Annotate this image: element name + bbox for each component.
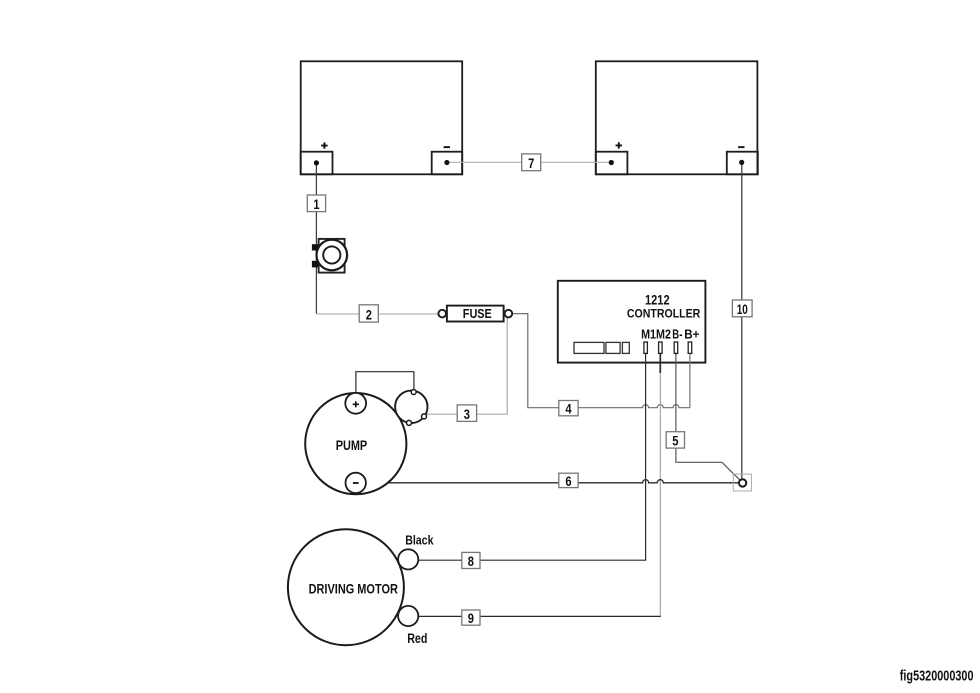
wire number box 2 [359, 305, 378, 323]
svg-text:6: 6 [565, 474, 572, 489]
svg-text:PUMP: PUMP [336, 438, 368, 454]
svg-text:Red: Red [407, 631, 427, 646]
svg-text:DRIVING MOTOR: DRIVING MOTOR [309, 582, 398, 598]
controller connector slot medium [606, 342, 620, 353]
wire M2 dark stub at controller [659, 354, 661, 374]
pump M2 body circle [305, 393, 406, 494]
controller U1 labels [574, 293, 701, 354]
svg-text:4: 4 [565, 402, 572, 417]
battery B1 minus sign [444, 146, 450, 148]
battery B2 negative dot [739, 160, 744, 165]
wire 2: key switch to fuse [316, 313, 439, 315]
svg-text:10: 10 [737, 302, 748, 317]
svg-text:B+: B+ [684, 326, 699, 341]
key switch outer ring [317, 240, 348, 271]
fuse right end cap [505, 310, 513, 318]
svg-text:9: 9 [468, 611, 474, 626]
controller terminal B- [674, 342, 678, 353]
controller terminal M1 [644, 342, 648, 353]
svg-text:3: 3 [464, 407, 471, 422]
battery B2 positive dot [609, 160, 614, 165]
battery B2 plus sign [616, 142, 622, 148]
wire 4: fuse output to controller B+ (hops over M1 M2 B-) [512, 314, 690, 408]
key switch S1 body [312, 239, 347, 273]
battery B1 body [301, 61, 463, 174]
wire 10: B2 negative down to junction [741, 163, 743, 480]
pump connector pin bottom-left [407, 420, 412, 425]
controller terminal M2 [659, 342, 663, 353]
wire 7: B1 negative to B2 positive [447, 161, 611, 163]
svg-text:Black: Black [405, 532, 434, 547]
wire number box 3 [457, 405, 476, 422]
svg-text:1: 1 [313, 197, 320, 212]
pump positive terminal circle [345, 393, 366, 414]
controller terminal B+ [688, 342, 692, 353]
battery B2 positive terminal box [596, 152, 628, 175]
driving motor M1 body circle [288, 529, 404, 645]
svg-text:5: 5 [672, 434, 679, 449]
wire 1: B1 positive down to key switch [315, 163, 317, 314]
svg-text:2: 2 [366, 307, 372, 322]
wire M2 vertical (grey) [659, 373, 661, 616]
battery B1 plus sign [321, 142, 327, 148]
junction node square [733, 474, 751, 491]
wire number box 4 [559, 401, 578, 417]
pump connector plug circle [395, 391, 427, 423]
wire 6: pump negative to junction (hops over M1 M2) [366, 480, 739, 483]
wire number box 6 [559, 473, 578, 489]
battery B2 body [596, 61, 758, 174]
pump connector pin right [422, 414, 427, 419]
junction node circle [739, 479, 746, 486]
svg-text:1212: 1212 [645, 293, 670, 309]
svg-text:fig5320000300: fig5320000300 [900, 667, 974, 684]
pump negative sign [353, 482, 359, 484]
battery B1 negative dot [444, 160, 449, 165]
svg-text:CONTROLLER: CONTROLLER [627, 308, 701, 321]
key switch lower tab [312, 261, 319, 268]
svg-text:B-: B- [672, 326, 682, 341]
battery B1 negative terminal box [432, 152, 463, 175]
wire number box 5 [666, 432, 684, 449]
wire number box 10 [732, 300, 752, 317]
svg-text:FUSE: FUSE [463, 307, 492, 321]
fuse F1 body [438, 306, 512, 322]
motor Black terminal circle [398, 549, 418, 569]
controller U1 box [558, 281, 706, 363]
controller connector slot large [574, 342, 604, 353]
wire B+ vertical [689, 354, 691, 408]
pump positive sign [353, 401, 359, 407]
battery B1 positive terminal box [301, 152, 333, 175]
wire number box 8 [462, 552, 480, 569]
svg-text:8: 8 [468, 554, 475, 569]
wire 5: controller B- down through box 5 to junction [676, 354, 741, 482]
fuse body rect [447, 306, 504, 322]
battery B1 positive dot [314, 160, 319, 165]
svg-text:7: 7 [528, 156, 534, 171]
wire number box 1 [307, 195, 325, 212]
battery B2 negative terminal box [727, 152, 758, 175]
key switch upper tab [312, 244, 319, 250]
pump positive jumper wire to connector [356, 372, 414, 394]
wire 9: M2 to motor Red terminal [418, 615, 661, 617]
motor Red terminal circle [398, 606, 418, 626]
pump negative terminal circle [346, 473, 366, 493]
battery B2 minus sign [738, 146, 744, 148]
svg-text:M1M2: M1M2 [641, 326, 671, 341]
wire number box 7 [522, 154, 541, 171]
fuse left end cap [438, 310, 446, 318]
pump connector pin top [411, 390, 416, 395]
wire 3: fuse output down-left to pump connector [427, 317, 507, 415]
wire M1 vertical from controller [645, 354, 647, 561]
wire 8: M1 to motor Black terminal [418, 559, 646, 561]
wire number box 9 [462, 610, 480, 626]
key switch inner ring [323, 246, 340, 263]
controller connector slot small [622, 342, 629, 353]
